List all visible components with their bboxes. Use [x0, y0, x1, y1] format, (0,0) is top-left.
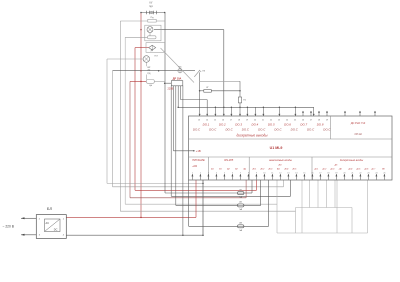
svg-text:АI.1: АI.1 [252, 167, 257, 170]
svg-text:DO.4: DO.4 [252, 122, 259, 126]
svg-text:AC: AC [46, 222, 50, 225]
svg-text:ДI.2: ДI.2 [322, 168, 328, 170]
svg-text:КУ: КУ [150, 2, 153, 5]
svg-text:DO.C: DO.C [193, 127, 201, 131]
svg-text:ДС РиО 7х0: ДС РиО 7х0 [351, 121, 366, 125]
svg-text:дискретные выходы: дискретные выходы [236, 134, 268, 138]
svg-text:АI.5: АI.5 [292, 167, 298, 170]
svg-text:аналоговые входы: аналоговые входы [269, 158, 292, 162]
svg-text:ДI.3: ДI.3 [330, 168, 336, 170]
svg-text:U1 МL9: U1 МL9 [270, 146, 283, 150]
svg-text:DO.C: DO.C [225, 127, 233, 131]
svg-text:ДI.1: ДI.1 [314, 168, 319, 170]
svg-text:ПИТАНИЕ: ПИТАНИЕ [192, 158, 205, 162]
svg-text:БЛ: БЛ [47, 206, 53, 211]
svg-text:ДI.7: ДI.7 [371, 168, 377, 170]
svg-text:DO.8: DO.8 [317, 122, 324, 126]
svg-text:DO.C: DO.C [209, 127, 217, 131]
svg-text:АО: АО [278, 164, 282, 167]
svg-text:DO.C: DO.C [307, 127, 315, 131]
svg-text:АI.2: АI.2 [260, 167, 266, 170]
svg-text:DO.5: DO.5 [268, 122, 275, 126]
svg-text:DO.C: DO.C [274, 127, 282, 131]
svg-text:ПД: ПД [147, 73, 151, 75]
svg-text:DO.2: DO.2 [219, 122, 226, 126]
svg-text:DO.7: DO.7 [300, 122, 307, 126]
svg-text:RS-485: RS-485 [224, 158, 233, 162]
svg-text:~220: ~220 [192, 166, 198, 168]
svg-text:дискретные входы: дискретные входы [340, 158, 363, 162]
svg-text:DO.C: DO.C [323, 127, 331, 131]
svg-text:220В: 220В [168, 88, 174, 91]
svg-text:АО: АО [276, 167, 280, 170]
svg-text:Дк: Дк [151, 50, 153, 52]
svg-text:DO.C: DO.C [258, 127, 266, 131]
svg-text:АI.3: АI.3 [268, 167, 274, 170]
svg-text:АI.4: АI.4 [284, 167, 290, 170]
svg-text:+1В: +1В [196, 149, 201, 153]
svg-text:DO.3: DO.3 [235, 122, 242, 126]
svg-text:В1: В1 [219, 168, 222, 170]
svg-text:ПЭ: ПЭ [155, 56, 159, 58]
svg-text:DO.1: DO.1 [203, 122, 210, 126]
svg-text:ДI.6: ДI.6 [364, 168, 370, 170]
svg-text:СР-Ш: СР-Ш [354, 132, 362, 136]
svg-text:DO.C: DO.C [242, 127, 250, 131]
svg-text:DO.6: DO.6 [284, 122, 291, 126]
svg-text:ДР 10А: ДР 10А [173, 77, 182, 80]
svg-text:ДI.4: ДI.4 [348, 167, 354, 170]
svg-text:DC: DC [54, 228, 58, 231]
svg-text:DO.C: DO.C [291, 127, 299, 131]
svg-text:А1: А1 [210, 167, 214, 170]
svg-text:ДI.5: ДI.5 [356, 168, 362, 170]
svg-text:~ 220 В: ~ 220 В [3, 225, 15, 229]
